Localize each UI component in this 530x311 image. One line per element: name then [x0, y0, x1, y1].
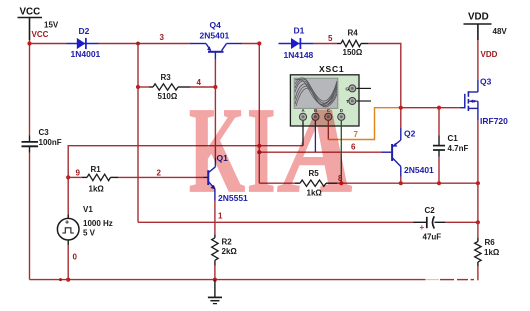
- VDD power symbol: [464, 24, 492, 40]
- svg-text:C1: C1: [448, 134, 459, 143]
- svg-text:1N4148: 1N4148: [284, 50, 314, 60]
- watermark KIA: [189, 90, 245, 212]
- wire node4 vertical down to Q1 collector: [214, 87, 216, 158]
- svg-text:VCC: VCC: [20, 7, 41, 18]
- svg-text:R3: R3: [161, 73, 172, 82]
- svg-text:R4: R4: [348, 29, 359, 38]
- svg-text:D2: D2: [79, 26, 90, 36]
- svg-text:2N5401: 2N5401: [200, 31, 230, 41]
- wire Q3 source down: [477, 120, 479, 183]
- wire dashes bottom right: [440, 279, 454, 281]
- svg-text:1kΩ: 1kΩ: [484, 248, 500, 257]
- scope right terminals: [346, 85, 372, 105]
- svg-text:Q3: Q3: [480, 77, 492, 87]
- diode D2 1N4001: [67, 38, 99, 49]
- resistor R5 1k: [259, 182, 295, 184]
- svg-text:5 V: 5 V: [83, 229, 96, 238]
- svg-text:510Ω: 510Ω: [158, 92, 178, 101]
- svg-text:2N5401: 2N5401: [404, 165, 434, 175]
- wire VCC rail vertical left: [29, 40, 31, 135]
- capacitor C1 4.7nF: [438, 108, 440, 136]
- resistor R3 510 ohm: [138, 86, 149, 88]
- wire orange net 7: [328, 108, 400, 140]
- resistor R6 1k: [477, 238, 479, 242]
- svg-text:VDD: VDD: [481, 50, 498, 59]
- node dot Q4 right: [257, 41, 261, 45]
- transistor Q4 2N5401: [190, 44, 242, 60]
- node dots bottom: [59, 278, 62, 281]
- svg-text:100nF: 100nF: [39, 138, 62, 147]
- wire scope A drop: [302, 121, 304, 146]
- svg-text:+: +: [65, 220, 69, 227]
- VCC power symbol: [18, 18, 43, 41]
- svg-text:47uF: 47uF: [423, 233, 442, 242]
- transistor Q1 2N5551: [204, 158, 216, 201]
- svg-text:R2: R2: [222, 238, 233, 247]
- wire net2 R1 to Q1 base: [118, 176, 204, 178]
- wire Q4-collector net vertical x=259: [258, 44, 260, 184]
- wire net8 to right: [337, 182, 478, 184]
- svg-text:V1: V1: [83, 205, 93, 214]
- svg-text:XSC1: XSC1: [319, 64, 344, 74]
- node VCC junction: [27, 41, 31, 45]
- svg-text:0: 0: [73, 253, 78, 262]
- wire vertical x=138 (D2 cathode net down to C2): [137, 44, 139, 223]
- scope waveform: [295, 78, 337, 107]
- svg-text:4.7nF: 4.7nF: [448, 144, 469, 153]
- wire net6 horizontal to Q2 base: [259, 151, 381, 153]
- wire node 3 segment: [99, 43, 191, 45]
- svg-text:5: 5: [328, 34, 333, 43]
- wire horizontal to C2: [138, 221, 414, 223]
- svg-text:IRF720: IRF720: [480, 116, 508, 126]
- MOSFET Q3 IRF720: [465, 80, 478, 120]
- svg-text:9: 9: [76, 169, 81, 178]
- svg-text:VCC: VCC: [32, 30, 49, 39]
- wire Q4 collector to right: [242, 43, 260, 45]
- wire net9 corner (V1/R1 to scope A): [68, 146, 303, 219]
- resistor R1 1k: [66, 175, 70, 179]
- bottom rail: [30, 279, 426, 281]
- svg-text:2kΩ: 2kΩ: [222, 247, 238, 256]
- transistor Q2 2N5401: [392, 128, 401, 177]
- wire scope D drop (green): [340, 121, 342, 183]
- svg-text:150Ω: 150Ω: [343, 48, 363, 57]
- wire Q4 base down to node 4: [214, 59, 216, 87]
- node dot at x138 top: [136, 42, 140, 46]
- svg-text:D1: D1: [294, 26, 305, 36]
- diode D1 1N4148: [279, 38, 314, 49]
- svg-text:Q2: Q2: [404, 129, 416, 139]
- ground: [208, 280, 222, 304]
- source V1: [67, 215, 69, 219]
- svg-text:1000 Hz: 1000 Hz: [83, 219, 113, 228]
- svg-text:VDD: VDD: [468, 12, 489, 23]
- svg-text:+: +: [420, 223, 425, 232]
- capacitor C2 47uF: [414, 221, 427, 223]
- svg-text:1N4001: 1N4001: [71, 49, 101, 59]
- svg-text:C2: C2: [425, 206, 436, 215]
- svg-text:2: 2: [157, 169, 162, 178]
- wire scope C drop: [327, 121, 329, 140]
- wire scope B drop: [314, 121, 316, 152]
- svg-text:3: 3: [160, 33, 165, 42]
- wire left vertical below C3: [29, 153, 31, 280]
- svg-text:1kΩ: 1kΩ: [89, 185, 105, 194]
- svg-text:48V: 48V: [493, 27, 508, 36]
- svg-text:Q4: Q4: [210, 20, 222, 30]
- wire Q1 emitter down: [214, 201, 216, 235]
- scope bottom terminals A B C D: [299, 108, 345, 120]
- wire R4 to corner and down: [368, 44, 401, 129]
- wire VDD down to Q3 drain: [477, 40, 479, 80]
- node dot net9/x259 crossing: [257, 144, 261, 148]
- svg-text:15V: 15V: [44, 21, 59, 30]
- resistor R2 2k: [214, 235, 216, 238]
- svg-text:R6: R6: [485, 238, 496, 247]
- wire gate net horizontal: [400, 107, 461, 109]
- wire top rail: [30, 43, 67, 45]
- wire D1 to R4: [313, 43, 337, 45]
- svg-text:C3: C3: [39, 128, 50, 137]
- svg-text:R1: R1: [91, 165, 102, 174]
- capacitor C3: [22, 135, 39, 152]
- resistor R4 150 ohm: [337, 43, 341, 45]
